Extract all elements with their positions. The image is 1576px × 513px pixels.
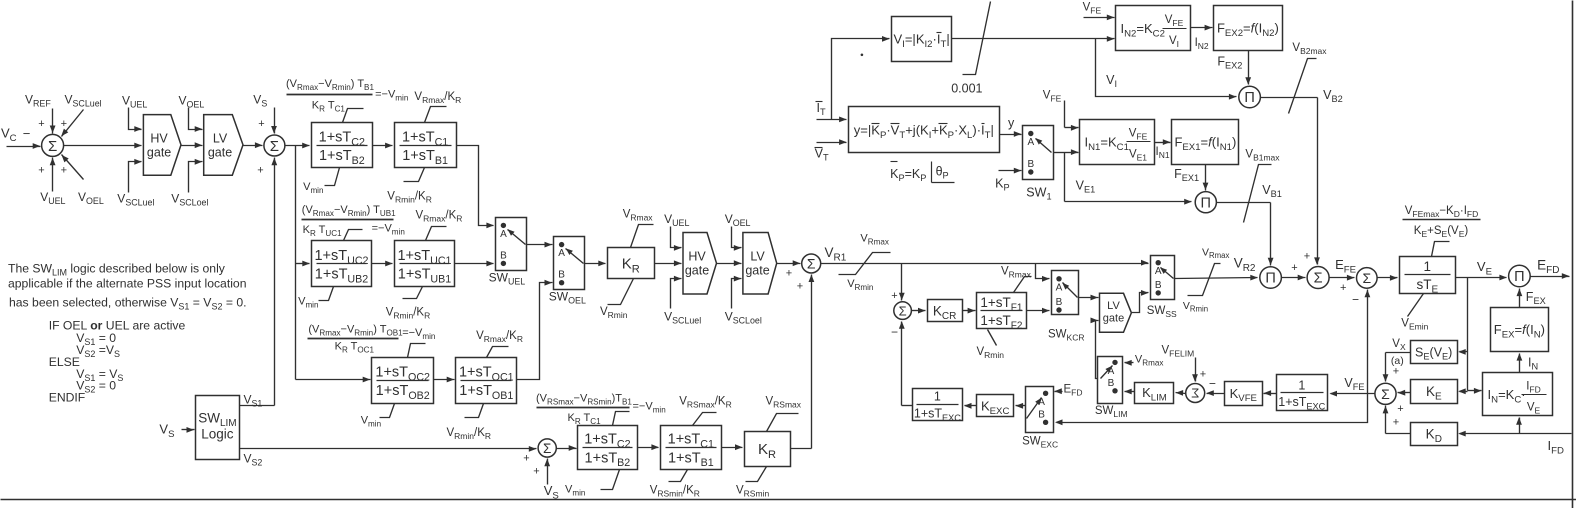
- LV gate G4: [743, 233, 777, 295]
- wire M4 output EFD: [1531, 258, 1570, 279]
- minus sign for KVFE input to S6: [1209, 377, 1216, 391]
- wire SE output VX down to summing junction S9: [1383, 338, 1411, 382]
- wire S2 output to lead-lag TC2 block, with branch node: [285, 143, 310, 149]
- HV gate G3: [683, 233, 717, 295]
- node VSCLuel input to HV gate G1: [117, 159, 154, 208]
- limit label VFEmax-KD.IFD / KE+SE(VE) for 1/sTE block: [1403, 205, 1481, 257]
- node VSCLoel input to LV gate G4: [725, 276, 762, 326]
- multiplier M4 (EFD product): [1509, 265, 1531, 287]
- limit label (VRmax-VRmin)TUB1/KR TUC1 = -Vmin for block TUC2: [302, 204, 405, 241]
- svg-text:Σ: Σ: [543, 441, 551, 456]
- svg-text:+: +: [1397, 403, 1403, 415]
- block TF1/TF2 lead-lag: [977, 293, 1027, 332]
- plus sign VB2 into S7: [1304, 251, 1310, 263]
- svg-text:LV: LV: [1107, 300, 1120, 312]
- svg-text:Σ: Σ: [807, 256, 816, 272]
- node VSCLuel input to S1: [61, 93, 102, 137]
- svg-text:Π: Π: [1514, 269, 1524, 285]
- wire S9 output VFE to TEXC-right block with junction to S8 and SWEXC: [1055, 290, 1375, 426]
- svg-text:1: 1: [934, 390, 941, 404]
- wire VR1 branch to SWKCR input A: [1036, 264, 1050, 282]
- node VSCLuel input to HV gate G3: [664, 276, 701, 326]
- wire IN block up into FEX block: [1517, 353, 1539, 372]
- limiter slash VRmax/VRmin on VR1: [839, 233, 891, 292]
- wire S8 to 1/sTE block: [1378, 275, 1398, 281]
- block SE(VE) saturation: [1411, 341, 1458, 364]
- summing junction S5: [891, 302, 911, 339]
- lag block 1/(1+sTEXC) left: [913, 389, 963, 423]
- wire KEXC to lag block TEXC-left: [964, 403, 977, 409]
- switch SWKCR: [1048, 271, 1084, 343]
- svg-text:LV: LV: [750, 250, 765, 264]
- wire TF2 to switch SWKCR input B: [1027, 308, 1050, 314]
- node VSCLoel input to LV gate G2: [171, 159, 208, 208]
- switch SW1: [1023, 126, 1054, 202]
- svg-text:B: B: [500, 250, 507, 261]
- wire y-block output to SW1 input A: [1000, 116, 1022, 137]
- wire VE output to multiplier M4 with branch node: [1456, 259, 1507, 280]
- node VS input to S4 from below: [544, 459, 559, 502]
- limit label VRmax/KR for block TUC1: [416, 210, 463, 241]
- pseudocode IF OEL or UEL are active: [49, 319, 186, 405]
- node VOEL input to S1: [61, 155, 104, 207]
- limit label Vmin for bottom TC2: [565, 470, 620, 498]
- node VS input to S2: [253, 93, 277, 134]
- wire TOC2 to TOC1: [434, 377, 455, 383]
- wire TOC1 output up to switch SWOEL input B: [517, 280, 553, 380]
- switch SWSS: [1147, 256, 1177, 320]
- multiplier M3 (VB2 product): [1239, 86, 1261, 108]
- svg-text:Π: Π: [1265, 271, 1275, 287]
- switch SWUEL: [489, 218, 527, 287]
- wire branch into TOC2: [296, 377, 371, 383]
- LV gate G5: [1100, 293, 1132, 332]
- svg-text:+: +: [1393, 417, 1399, 429]
- limit label VRmin for gain KR: [600, 279, 634, 321]
- svg-text:+: +: [1291, 262, 1297, 274]
- svg-text:Σ: Σ: [1362, 270, 1371, 286]
- node VS input to SWLIM logic: [159, 422, 194, 440]
- svg-text:A: A: [558, 248, 565, 259]
- limit label VRmin/KR for block TUC1: [386, 287, 431, 321]
- svg-text:1: 1: [1424, 259, 1432, 274]
- limit label VRSmin/KR for bottom TC1: [650, 470, 700, 499]
- wire bottom TC2 to TC1: [638, 444, 659, 450]
- limit label VRSmin for bottom KR: [736, 467, 769, 499]
- svg-text:B: B: [1038, 409, 1045, 420]
- limiter slash VRmax/VRmin on VR2: [1183, 247, 1230, 314]
- wire VC to summing junction S1: [7, 126, 41, 149]
- gain block KEXC: [977, 395, 1014, 417]
- node VREF input: [25, 93, 56, 134]
- limit label VRmax for gain KR: [623, 209, 654, 248]
- block bottom TC2/TB2 lead-lag: [578, 426, 638, 470]
- limit label Vmin for block TC2: [303, 168, 339, 195]
- wire SWEXC output to gain KEXC: [1016, 403, 1026, 409]
- svg-text:Σ: Σ: [1314, 271, 1323, 287]
- wire TEXC-left up to S5 minus input: [899, 321, 913, 405]
- wire TUC2 to TUC1: [372, 261, 393, 267]
- svg-text:Logic: Logic: [201, 427, 234, 442]
- wire G1 to LV gate G2: [182, 142, 203, 148]
- node VUEL input to HV gate G3: [664, 212, 689, 251]
- wire S5 to gain KCR: [912, 308, 926, 314]
- limiter slash VB2max: [1289, 42, 1328, 114]
- summing junction S9 (VFE): [1375, 383, 1396, 404]
- svg-text:1: 1: [1298, 378, 1305, 392]
- node VUEL input to HV gate G1: [122, 94, 147, 132]
- wire FEX1 down to multiplier M2: [1174, 165, 1208, 191]
- summing junction S8: [1352, 268, 1377, 307]
- limiter slash 0.001 lower limit on VI: [951, 2, 990, 96]
- svg-text:+: +: [61, 165, 67, 177]
- svg-text:B: B: [1155, 280, 1162, 291]
- wire IT into y-block and branch up to VI block: [817, 36, 890, 122]
- wire SWSS output VR2 to multiplier M1: [1175, 256, 1258, 281]
- multiplier M1 (VR2 x VB1): [1260, 267, 1282, 289]
- summing junction S6 (mirrored sigma): [1186, 384, 1205, 403]
- node KP input to SW1 input B: [995, 168, 1021, 193]
- switch SWEXC: [1022, 387, 1058, 450]
- wire VS1 into S2 from below, plus sign: [257, 165, 263, 177]
- wire VR1 branch down to summing junction S5: [891, 264, 904, 303]
- svg-text:A: A: [500, 229, 507, 240]
- svg-text:+: +: [38, 118, 44, 130]
- wire VI output to IN2 block with branch node down: [952, 36, 1115, 42]
- page border bottom horizontal: [1, 499, 1576, 501]
- block TOC2/TOB2 lead-lag: [372, 358, 434, 404]
- label KP = KP angle thetaP: [890, 162, 954, 184]
- svg-text:HV: HV: [150, 131, 168, 145]
- HV gate G1: [143, 115, 181, 176]
- wire M3 output VB2 down to summing junction S7: [1261, 88, 1343, 265]
- wire S1 to HV gate G1: [64, 143, 142, 149]
- block IN2 = KC2 VFE/VI: [1116, 6, 1191, 51]
- limit label VRmin/KR for block TOC1: [447, 404, 492, 442]
- block TC1/TB1 lead-lag: [395, 123, 457, 168]
- gain block KVFE: [1225, 382, 1263, 406]
- block FEX1 = f(IN1): [1172, 120, 1239, 165]
- wire FEX block up into M4: [1517, 289, 1546, 308]
- svg-text:0.001: 0.001: [951, 82, 982, 96]
- limit label (VRmax-VRmin)TOB1/KR TOC1 = -Vmin for block TOC2: [308, 324, 436, 358]
- svg-text:Σ: Σ: [1191, 386, 1199, 401]
- block TUC1/TUB1 lead-lag: [395, 241, 455, 287]
- wire bottom KR up into S3: [791, 275, 815, 449]
- wire SW1 output VE1 to IN1 block and down to multiplier M2: [1054, 149, 1192, 204]
- summing junction S4: [523, 439, 556, 478]
- block TOC1/TOB1 lead-lag: [456, 358, 517, 404]
- summing junction S2: [264, 135, 285, 156]
- node EFD input to SWEXC input A: [1054, 384, 1082, 398]
- block FEX = f(IN): [1491, 308, 1549, 352]
- wire branch into TUC2: [296, 261, 310, 267]
- wire S7 output EFE to summing junction S8: [1330, 257, 1357, 294]
- summing junction S7 (EFE): [1307, 267, 1329, 289]
- svg-text:Σ: Σ: [1381, 386, 1390, 402]
- wire IFD input line to KD and IN blocks: [1458, 417, 1571, 456]
- wire M1 to summing junction S7, plus sign: [1282, 262, 1306, 280]
- switch SWOEL: [549, 237, 586, 306]
- wire VI branch down to multiplier M3: [1096, 39, 1237, 100]
- svg-text:Σ: Σ: [270, 138, 279, 155]
- node VFE input to IN2 block: [1083, 2, 1115, 21]
- svg-text:applicable if the alternate PS: applicable if the alternate PSS input lo…: [8, 277, 247, 291]
- limit label (VRmax-VRmin)TB1/KR TC1 = -Vmin for block TC2: [286, 78, 408, 123]
- svg-text:A: A: [1027, 137, 1034, 148]
- wire G4 to summing junction S3, plus sign: [777, 260, 801, 279]
- wire FEX2 down to multiplier M3: [1217, 51, 1251, 85]
- summing junction S3: [802, 254, 821, 273]
- stray dot: [861, 54, 864, 57]
- svg-text:+: +: [1304, 251, 1310, 263]
- svg-text:+: +: [257, 165, 263, 177]
- node VT input label with overbar: [815, 147, 829, 163]
- svg-text:+: +: [1393, 366, 1399, 378]
- svg-text:Σ: Σ: [48, 138, 57, 155]
- wire bottom KR path into S3 from below, plus sign: [797, 281, 803, 293]
- node IT input label with overbar: [816, 101, 826, 117]
- wire VE branch down to SE KE and IN blocks: [1458, 278, 1481, 395]
- limiter slash VB1max: [1244, 149, 1281, 223]
- wire TC1 output to switch SWUEL input A: [457, 146, 494, 229]
- block TUC2/TUB2 lead-lag: [312, 241, 372, 287]
- svg-text:VS2 =VS: VS2 =VS: [76, 343, 120, 359]
- wire VS1 output up to summing junction S2: [240, 158, 278, 409]
- wire SWLIM output up to LV gate G5 lower input: [1091, 318, 1099, 379]
- svg-text:+: +: [523, 453, 529, 465]
- gain block KLIM: [1135, 383, 1174, 404]
- svg-text:IF OEL or UEL are active: IF OEL or UEL are active: [49, 319, 186, 333]
- limit label Vmin for block TOC2: [361, 404, 395, 429]
- wire S3 output VR1 main line: [821, 245, 1149, 266]
- wire S4 to bottom TC2 block: [557, 445, 577, 451]
- multiplier M2 (VB1 product): [1195, 192, 1216, 213]
- LV gate G2: [204, 115, 243, 176]
- svg-text:Π: Π: [1244, 90, 1254, 106]
- block 1/sTE integrator: [1400, 257, 1456, 296]
- node VC input label: [1, 126, 17, 144]
- block KD gain: [1411, 423, 1458, 446]
- svg-text:+: +: [38, 165, 44, 177]
- svg-text:gate: gate: [147, 145, 171, 159]
- node VOEL input to LV gate G4: [725, 212, 751, 251]
- wire TUC1 output to switch SWUEL input B: [455, 261, 494, 267]
- wire KE output to S9, plus sign: [1397, 390, 1410, 415]
- limit label VEmin for 1/sTE block: [1401, 294, 1428, 332]
- svg-text:The SWLIM logic described belo: The SWLIM logic described below is only: [8, 262, 226, 278]
- gain block KR bottom: [745, 432, 791, 467]
- wire TC2 to TC1 block: [373, 143, 393, 149]
- svg-text:−: −: [1352, 293, 1359, 307]
- wire SWUEL to SWOEL input A: [527, 242, 553, 248]
- svg-text:gate: gate: [685, 264, 709, 278]
- block VI = |KI2 IT|: [892, 17, 952, 62]
- block bottom TC1/TB1 lead-lag: [661, 426, 722, 470]
- limit label VRSmax/KR for bottom TC1: [679, 396, 732, 426]
- svg-text:HV: HV: [688, 250, 706, 264]
- lag block 1/(1+sTEXC) right: [1277, 375, 1328, 412]
- wire KD output up to S9, plus sign: [1383, 406, 1411, 434]
- svg-text:y: y: [1008, 116, 1015, 130]
- svg-text:+: +: [61, 118, 67, 130]
- svg-text:−: −: [1209, 377, 1216, 391]
- wire G2 to summing junction S2: [244, 142, 263, 148]
- limit label VRSmax for bottom KR: [766, 396, 802, 432]
- wire KLIM to switch SWLIM input B: [1124, 389, 1134, 395]
- wire G5 output up to switch SWSS input B: [1132, 290, 1149, 313]
- limit label VRmax for TF1 block: [1001, 266, 1032, 293]
- switch SWLIM: [1095, 357, 1128, 420]
- limit label (VRSmax-VRSmin)TB1/KR TC1 = -Vmin for bottom block TC2: [536, 393, 666, 426]
- limit label Vmin for block TUC2: [298, 287, 333, 310]
- block SWLIM Logic: [196, 396, 240, 460]
- block y = |KP VT + j(KI + KP XL) IT|: [849, 107, 1000, 153]
- node VFELIM input: [1162, 345, 1207, 382]
- limit label VRmin/KR for block TC1: [387, 168, 432, 205]
- block TC2/TB2 lead-lag: [312, 123, 373, 168]
- node VOEL input to LV gate G2: [179, 94, 205, 132]
- svg-text:ENDIF: ENDIF: [49, 391, 86, 405]
- wire VS2 output to summing junction S4: [240, 446, 537, 468]
- wire SWOEL to gain KR: [585, 261, 606, 267]
- wire IN2 to FEX2 block: [1191, 25, 1213, 51]
- limit label VRmin for TF1 block: [977, 330, 1005, 361]
- block IN1 = KC1 VFE/VE1: [1080, 120, 1155, 165]
- svg-text:B: B: [1108, 378, 1115, 389]
- wire KVFE to S6 with minus sign: [1206, 390, 1224, 396]
- svg-text:+: +: [258, 118, 264, 130]
- block IN = KC IFD/VE: [1483, 373, 1553, 416]
- svg-text:has been selected, otherwise V: has been selected, otherwise VS1 = VS2 =…: [9, 296, 247, 312]
- gain block KR: [608, 248, 655, 279]
- limit label VRmax/KR for block TOC1: [476, 330, 523, 358]
- wire G3 to LV gate G4: [717, 260, 742, 266]
- svg-text:gate: gate: [745, 264, 769, 278]
- svg-text:B: B: [558, 270, 565, 281]
- wire IN1 to FEX1 block: [1155, 139, 1171, 160]
- limit label VRmax/KR for block TC1: [414, 91, 461, 123]
- svg-text:A: A: [1056, 282, 1063, 293]
- svg-text:B: B: [1027, 159, 1034, 170]
- wire KR to HV gate G3: [655, 260, 682, 266]
- svg-text:LV: LV: [213, 131, 228, 145]
- node VUEL input to S1: [38, 158, 65, 207]
- svg-text:ELSE: ELSE: [49, 355, 80, 369]
- svg-text:Π: Π: [1201, 195, 1211, 211]
- svg-text:−: −: [23, 126, 31, 141]
- svg-text:B: B: [1056, 297, 1063, 308]
- block FEX2 = f(IN2): [1214, 6, 1283, 51]
- svg-text:+: +: [1200, 369, 1206, 381]
- wire SWKCR to LV gate G5: [1079, 295, 1099, 301]
- block KE gain: [1411, 380, 1458, 404]
- node VRmax input to SWLIM input A: [1124, 354, 1163, 368]
- svg-text:+: +: [786, 268, 792, 280]
- wire branch down to UEL and OEL paths: [295, 146, 297, 380]
- wire TEXC-right to gain KVFE: [1264, 390, 1277, 396]
- wire VT into y-block: [817, 139, 847, 145]
- svg-text:Σ: Σ: [899, 303, 907, 318]
- wire KCR to TF1/TF2 block: [963, 308, 976, 314]
- svg-text:gate: gate: [208, 145, 232, 159]
- svg-text:−: −: [891, 325, 898, 339]
- svg-text:+: +: [533, 466, 539, 478]
- node VFE input to IN1 block: [1043, 90, 1079, 131]
- summing junction S1: [42, 134, 64, 156]
- svg-text:gate: gate: [1103, 312, 1124, 324]
- svg-text:+: +: [891, 290, 897, 302]
- svg-text:+: +: [797, 281, 803, 293]
- page border right vertical: [1572, 1, 1574, 509]
- wire bottom TC1 to bottom KR: [722, 444, 743, 450]
- gain block KCR: [928, 300, 963, 322]
- note text about SWLIM logic: [8, 262, 247, 312]
- wire M2 output VB1 down to multiplier M1: [1217, 183, 1282, 266]
- svg-text:+: +: [1340, 282, 1346, 294]
- wire S6 to gain KLIM: [1176, 390, 1186, 396]
